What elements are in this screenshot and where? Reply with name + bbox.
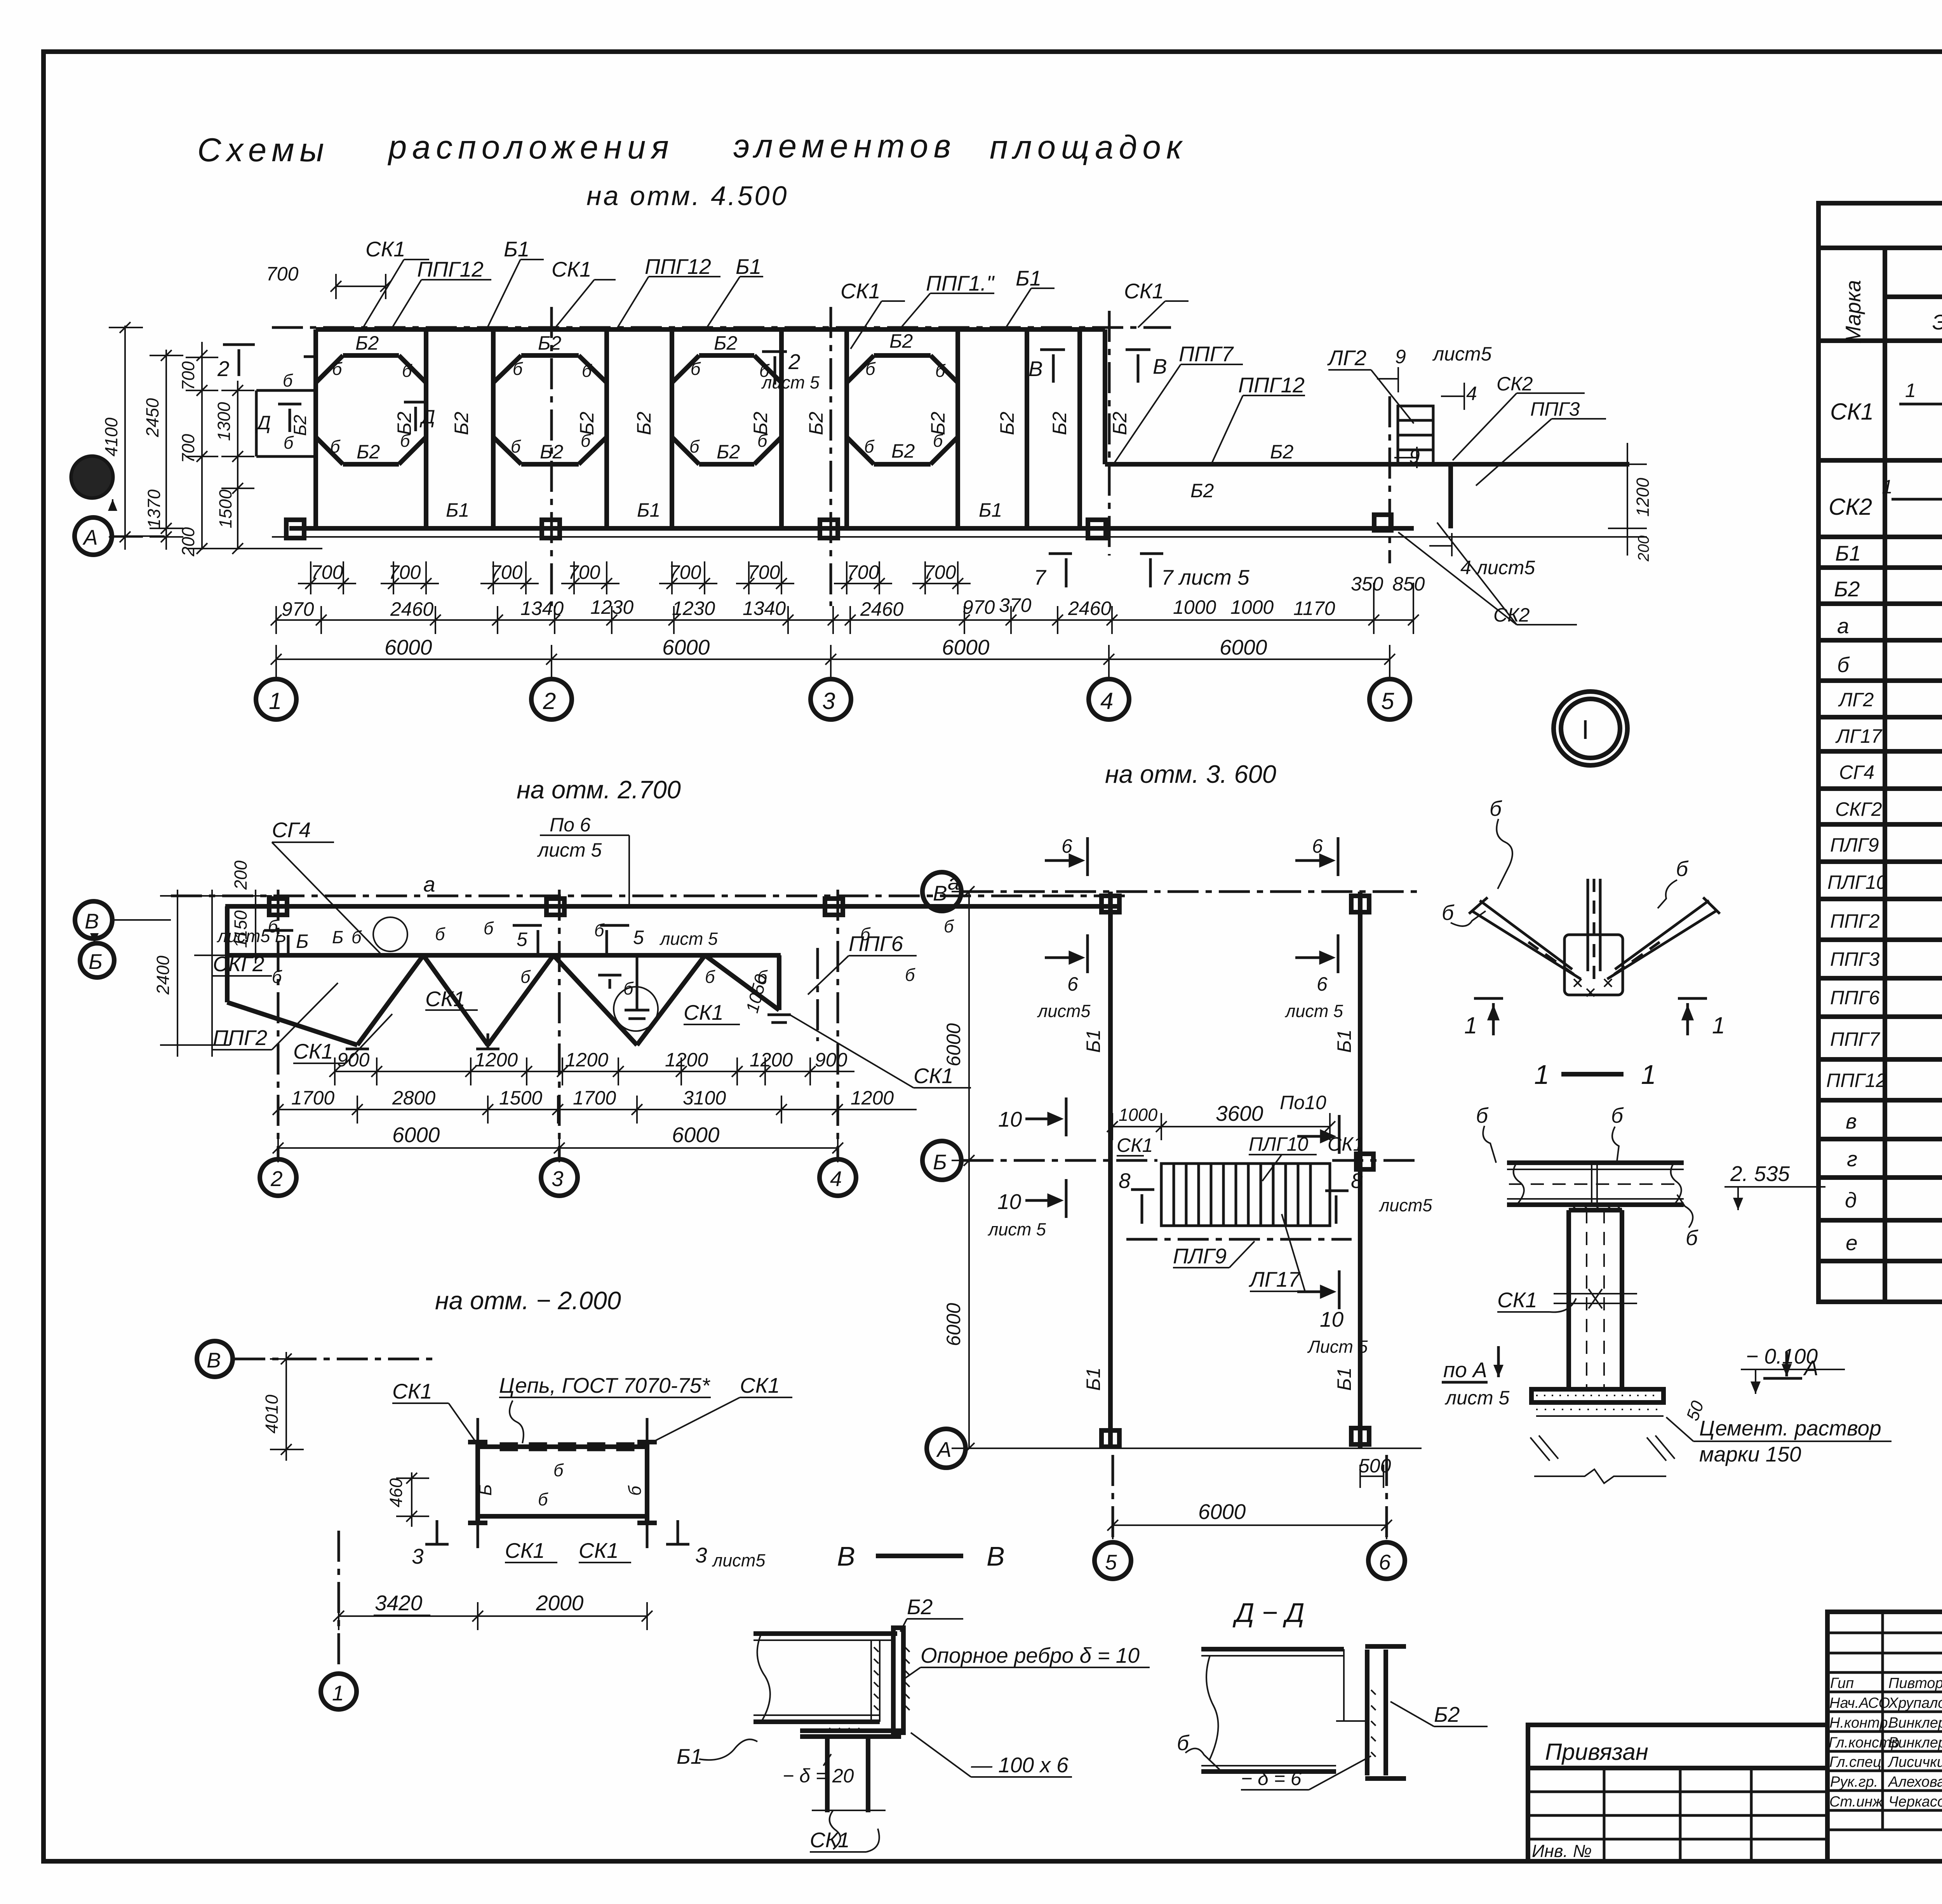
svg-text:Цемент. раствор: Цемент. раствор xyxy=(1699,1416,1881,1440)
svg-text:Ι: Ι xyxy=(1582,714,1589,745)
svg-text:СК1: СК1 xyxy=(425,987,465,1011)
svg-text:на отм. 2.700: на отм. 2.700 xyxy=(517,775,681,804)
svg-text:1500: 1500 xyxy=(216,490,235,528)
svg-text:2: 2 xyxy=(788,350,800,374)
svg-text:5: 5 xyxy=(1105,1550,1117,1574)
octagon panel 1 xyxy=(316,329,426,528)
svg-text:1170: 1170 xyxy=(1293,598,1335,619)
svg-text:1: 1 xyxy=(269,688,282,714)
svg-text:В: В xyxy=(987,1541,1005,1571)
svg-text:А: А xyxy=(936,1437,952,1462)
octagon panel 4 xyxy=(847,329,958,528)
svg-text:2: 2 xyxy=(217,357,230,381)
svg-text:СК2: СК2 xyxy=(1493,604,1530,626)
svg-text:Б2: Б2 xyxy=(891,440,915,462)
svg-text:4: 4 xyxy=(830,1167,842,1191)
svg-text:ППГ7: ППГ7 xyxy=(1179,342,1234,366)
svg-text:1200: 1200 xyxy=(750,1049,793,1071)
svg-text:Б2: Б2 xyxy=(1434,1702,1460,1726)
svg-text:ППГ3: ППГ3 xyxy=(1530,398,1580,420)
svg-text:1: 1 xyxy=(1534,1059,1549,1090)
svg-text:850: 850 xyxy=(1392,573,1425,595)
svg-text:6000: 6000 xyxy=(1198,1500,1246,1524)
octagon panel 2 xyxy=(493,329,607,528)
svg-text:1000: 1000 xyxy=(1230,596,1274,618)
svg-text:700: 700 xyxy=(178,361,198,390)
svg-text:б: б xyxy=(513,359,523,379)
svg-text:лист 5: лист 5 xyxy=(537,839,602,861)
svg-text:б: б xyxy=(594,920,605,940)
dims 1000 3600 xyxy=(1112,1126,1330,1127)
weld ticks xyxy=(829,1647,910,1731)
svg-text:Б2: Б2 xyxy=(1270,441,1294,463)
svg-text:ППГ7: ППГ7 xyxy=(1830,1028,1881,1050)
band top chord xyxy=(316,327,1105,332)
svg-text:ППГ12: ППГ12 xyxy=(1238,373,1305,397)
left side small box and dims xyxy=(256,357,316,456)
svg-text:б: б xyxy=(332,359,343,379)
svg-text:Д − Д: Д − Д xyxy=(1232,1597,1304,1628)
svg-text:д: д xyxy=(1845,1188,1857,1212)
svg-text:ППГ6: ППГ6 xyxy=(849,932,903,956)
svg-text:СК1: СК1 xyxy=(365,237,405,261)
svg-text:Ст.инж: Ст.инж xyxy=(1829,1794,1883,1810)
svg-text:СКГ2: СКГ2 xyxy=(1835,798,1882,820)
dims xyxy=(339,1615,647,1617)
svg-text:СК1: СК1 xyxy=(1328,1133,1364,1155)
svg-text:1200: 1200 xyxy=(1633,478,1653,517)
svg-text:лист5: лист5 xyxy=(712,1550,766,1570)
svg-text:б: б xyxy=(1476,1103,1489,1127)
axis circles xyxy=(922,872,961,911)
svg-text:ППГ2: ППГ2 xyxy=(213,1026,267,1050)
svg-text:СК1: СК1 xyxy=(392,1379,432,1403)
svg-text:1: 1 xyxy=(1712,1012,1725,1038)
svg-text:б: б xyxy=(553,1460,564,1480)
svg-text:1: 1 xyxy=(1905,380,1916,401)
svg-text:6: 6 xyxy=(1379,1550,1391,1574)
svg-text:6000: 6000 xyxy=(1220,635,1267,659)
svg-text:1700: 1700 xyxy=(291,1087,334,1109)
svg-text:СК1: СК1 xyxy=(1830,399,1874,425)
svg-text:200: 200 xyxy=(231,861,251,890)
svg-text:1000: 1000 xyxy=(1173,596,1216,618)
svg-text:6000: 6000 xyxy=(943,1023,964,1066)
column xyxy=(1531,1210,1664,1402)
svg-text:4: 4 xyxy=(1466,383,1477,404)
left dimension chains xyxy=(109,326,322,550)
svg-text:Б2: Б2 xyxy=(717,441,740,463)
svg-text:б: б xyxy=(1837,653,1850,677)
svg-text:В: В xyxy=(207,1348,221,1372)
svg-text:а: а xyxy=(1837,614,1849,638)
svg-text:расположения: расположения xyxy=(387,129,674,166)
svg-text:По10: По10 xyxy=(1280,1092,1326,1113)
svg-text:площадок: площадок xyxy=(990,129,1187,166)
svg-text:Б: Б xyxy=(475,1484,495,1496)
svg-text:б: б xyxy=(864,437,875,456)
weld x marks xyxy=(1574,979,1612,996)
svg-text:ППГ3: ППГ3 xyxy=(1830,948,1880,970)
svg-text:700: 700 xyxy=(847,561,879,583)
svg-text:СК1: СК1 xyxy=(1497,1288,1537,1312)
svg-text:1: 1 xyxy=(1641,1059,1656,1090)
svg-text:лист 5: лист 5 xyxy=(987,1219,1046,1239)
svg-text:Б1: Б1 xyxy=(1016,266,1041,290)
svg-text:Алехова: Алехова xyxy=(1888,1774,1942,1790)
svg-text:б: б xyxy=(625,1485,645,1496)
svg-text:СГ4: СГ4 xyxy=(272,818,311,842)
svg-text:лист5: лист5 xyxy=(1037,1001,1091,1021)
svg-text:б: б xyxy=(905,965,915,985)
svg-text:Б2: Б2 xyxy=(1190,480,1214,502)
svg-text:1000: 1000 xyxy=(1119,1105,1157,1125)
row lines xyxy=(1818,458,1942,463)
svg-text:б: б xyxy=(581,431,591,451)
svg-text:6000: 6000 xyxy=(943,1303,964,1346)
svg-text:700: 700 xyxy=(388,561,421,583)
svg-text:2000: 2000 xyxy=(536,1591,584,1615)
svg-text:2450: 2450 xyxy=(143,398,162,437)
svg-text:б: б xyxy=(1442,901,1455,925)
svg-text:ПЛГ10: ПЛГ10 xyxy=(1827,871,1887,893)
3 marks xyxy=(425,1520,689,1544)
dimension row 700s xyxy=(298,561,971,594)
table header grid xyxy=(1818,246,1942,250)
svg-text:СК1: СК1 xyxy=(293,1039,333,1063)
svg-text:10: 10 xyxy=(998,1107,1022,1131)
svg-text:б: б xyxy=(933,431,943,451)
svg-text:ПЛГ10: ПЛГ10 xyxy=(1249,1133,1309,1155)
svg-text:1150: 1150 xyxy=(231,910,251,948)
svg-text:350: 350 xyxy=(1351,573,1383,595)
svg-text:8: 8 xyxy=(1119,1169,1131,1193)
б labels on diagonals xyxy=(330,359,946,456)
svg-text:1: 1 xyxy=(1464,1012,1477,1038)
svg-text:700: 700 xyxy=(178,434,198,463)
svg-text:Б1: Б1 xyxy=(1835,541,1861,565)
svg-text:СК1: СК1 xyxy=(1124,279,1164,303)
svg-text:1: 1 xyxy=(332,1681,344,1705)
svg-text:б: б xyxy=(691,359,701,379)
underline for 3420 xyxy=(374,1615,430,1616)
svg-text:− δ = 20: − δ = 20 xyxy=(783,1765,854,1787)
svg-text:− δ = 6: − δ = 6 xyxy=(1241,1768,1302,1789)
svg-text:лист 5: лист 5 xyxy=(1284,1001,1343,1021)
svg-text:Хрупало: Хрупало xyxy=(1888,1695,1942,1711)
dimension row detailed xyxy=(276,619,1414,621)
svg-text:лист5: лист5 xyxy=(1378,1195,1432,1215)
right verticals of band xyxy=(1025,329,1029,528)
svg-text:2800: 2800 xyxy=(392,1087,435,1109)
svg-text:Б1: Б1 xyxy=(979,499,1002,521)
svg-text:1200: 1200 xyxy=(665,1049,708,1071)
svg-text:ППГ2: ППГ2 xyxy=(1830,910,1880,932)
привязан sub-table xyxy=(1528,1725,1827,1861)
svg-text:б: б xyxy=(511,437,521,456)
svg-text:лист 5: лист 5 xyxy=(659,929,718,949)
svg-text:3: 3 xyxy=(822,688,835,714)
svg-text:г: г xyxy=(1847,1147,1857,1171)
ladder xyxy=(1161,1164,1330,1226)
svg-text:Винклер: Винклер xyxy=(1888,1735,1942,1751)
CK2 sketch xyxy=(1892,473,1942,528)
truss diagonals xyxy=(227,906,779,1045)
chain links xyxy=(501,1444,633,1450)
svg-text:970: 970 xyxy=(282,598,314,620)
svg-text:Б2: Б2 xyxy=(357,441,380,463)
band bottom chords xyxy=(289,526,1414,531)
svg-text:б: б xyxy=(484,918,494,938)
svg-text:ЛГ17: ЛГ17 xyxy=(1835,725,1883,747)
svg-text:А: А xyxy=(82,525,98,549)
svg-text:а: а xyxy=(423,872,435,896)
right edge vertical dim 1200/200 xyxy=(1608,443,1647,556)
svg-text:лист5: лист5 xyxy=(1432,343,1492,365)
svg-text:Винклер: Винклер xyxy=(1888,1715,1942,1731)
svg-text:СК1: СК1 xyxy=(579,1538,619,1563)
svg-text:3100: 3100 xyxy=(683,1087,726,1109)
svg-text:б: б xyxy=(623,979,634,998)
svg-text:ППГ12: ППГ12 xyxy=(645,254,711,279)
dim row A xyxy=(334,1071,854,1072)
svg-text:Б2: Б2 xyxy=(1834,577,1860,601)
б labels xyxy=(268,916,954,998)
svg-text:б: б xyxy=(1676,857,1689,881)
svg-text:Опорное ребро δ = 10: Опорное ребро δ = 10 xyxy=(921,1643,1140,1667)
svg-text:700: 700 xyxy=(490,561,523,583)
svg-text:Б1: Б1 xyxy=(637,499,660,521)
svg-text:по А: по А xyxy=(1443,1358,1487,1382)
svg-text:б: б xyxy=(944,916,954,936)
beam xyxy=(1507,1163,1684,1205)
svg-text:Привязан: Привязан xyxy=(1545,1739,1648,1765)
svg-text:лист 5: лист 5 xyxy=(761,373,820,392)
svg-text:Б2: Б2 xyxy=(714,332,738,354)
svg-text:ЛГ17: ЛГ17 xyxy=(1249,1267,1301,1291)
svg-text:1200: 1200 xyxy=(851,1087,894,1109)
svg-text:е: е xyxy=(1846,1231,1858,1255)
section marks 6 xyxy=(1045,837,1338,973)
apex marks xyxy=(346,954,791,1049)
beam labels Б2 Б1 xyxy=(355,330,1294,521)
svg-text:Б2: Б2 xyxy=(889,330,913,352)
svg-text:СК1: СК1 xyxy=(552,257,592,281)
left dims xyxy=(160,890,272,1057)
plan rect xyxy=(478,1444,647,1449)
7 marks below band right xyxy=(1049,554,1163,587)
grid circles 1..5 xyxy=(256,659,1410,719)
svg-text:Рук.гр.: Рук.гр. xyxy=(1830,1774,1878,1790)
svg-text:10: 10 xyxy=(1320,1307,1344,1331)
svg-text:в: в xyxy=(1846,1109,1857,1133)
svg-text:Схемы: Схемы xyxy=(197,132,329,169)
svg-text:б: б xyxy=(582,361,592,381)
svg-text:СК1: СК1 xyxy=(740,1373,780,1397)
svg-text:Б2: Б2 xyxy=(538,332,562,354)
svg-text:2. 535: 2. 535 xyxy=(1730,1162,1790,1186)
svg-text:4010: 4010 xyxy=(262,1395,282,1434)
svg-text:В: В xyxy=(1028,357,1043,381)
svg-text:на отм. 4.500: на отм. 4.500 xyxy=(586,181,788,211)
2 / лист5 mark panel3 xyxy=(762,352,787,385)
svg-text:Инв. №: Инв. № xyxy=(1532,1841,1592,1861)
svg-text:Гип: Гип xyxy=(1830,1675,1854,1691)
svg-text:ЛГ2: ЛГ2 xyxy=(1327,346,1366,370)
svg-text:9: 9 xyxy=(1409,446,1420,467)
I in double circle xyxy=(1554,692,1627,765)
svg-text:6000: 6000 xyxy=(942,635,990,659)
1 section marks xyxy=(1474,998,1707,1035)
svg-text:5: 5 xyxy=(1381,688,1394,714)
svg-text:200: 200 xyxy=(1635,535,1652,562)
dim row B xyxy=(278,1109,917,1110)
octagon panel 3 xyxy=(672,329,781,528)
svg-text:СК1: СК1 xyxy=(840,279,881,303)
svg-text:2460: 2460 xyxy=(1068,598,1111,619)
svg-text:— 100 х 6: — 100 х 6 xyxy=(971,1753,1068,1777)
svg-text:3600: 3600 xyxy=(1216,1101,1263,1125)
svg-text:Эскиз: Эскиз xyxy=(1932,310,1942,334)
svg-text:1700: 1700 xyxy=(573,1087,616,1109)
svg-text:марки 150: марки 150 xyxy=(1699,1442,1801,1466)
CK1 sketch xyxy=(1899,363,1942,442)
svg-text:Б: Б xyxy=(332,927,343,947)
svg-text:элементов: элементов xyxy=(733,128,956,165)
svg-text:СК1: СК1 xyxy=(1117,1134,1153,1156)
svg-text:Б2: Б2 xyxy=(290,415,310,436)
signature grid xyxy=(1827,1612,1942,1830)
svg-text:1: 1 xyxy=(1882,476,1893,498)
svg-text:Б2: Б2 xyxy=(355,332,379,354)
svg-text:ПЛГ9: ПЛГ9 xyxy=(1830,834,1879,856)
svg-text:ППГ1.": ППГ1." xyxy=(926,271,995,295)
dimension row 6000 xyxy=(276,658,1390,660)
svg-text:СК1: СК1 xyxy=(810,1828,850,1852)
svg-text:Б2: Б2 xyxy=(805,411,827,435)
svg-text:СК2: СК2 xyxy=(1497,373,1533,395)
svg-text:Б1: Б1 xyxy=(446,499,469,521)
svg-text:3: 3 xyxy=(412,1544,424,1568)
svg-text:ППГ12: ППГ12 xyxy=(1826,1070,1886,1091)
svg-text:2460: 2460 xyxy=(390,598,433,620)
svg-text:Нач.АСО: Нач.АСО xyxy=(1829,1695,1890,1711)
axis dashdot verticals at columns xyxy=(550,307,553,606)
svg-text:3: 3 xyxy=(552,1167,564,1191)
svg-text:Д: Д xyxy=(419,406,435,428)
svg-text:1300: 1300 xyxy=(214,402,234,441)
svg-text:Лист 5: Лист 5 xyxy=(1307,1337,1368,1357)
svg-text:Д: Д xyxy=(255,412,271,434)
svg-text:Гл.спец.: Гл.спец. xyxy=(1829,1754,1885,1770)
svg-text:1500: 1500 xyxy=(499,1087,542,1109)
svg-text:б: б xyxy=(520,967,531,987)
svg-text:8: 8 xyxy=(1351,1169,1363,1193)
svg-text:10: 10 xyxy=(997,1190,1021,1214)
svg-text:Б2: Б2 xyxy=(1049,411,1070,435)
svg-text:СК1: СК1 xyxy=(914,1064,954,1088)
svg-text:Б2: Б2 xyxy=(451,411,472,435)
svg-text:− 0.100: − 0.100 xyxy=(1746,1344,1818,1368)
svg-text:б: б xyxy=(689,437,700,456)
svg-text:3: 3 xyxy=(695,1543,707,1567)
svg-text:б: б xyxy=(330,437,341,456)
svg-text:Б2: Б2 xyxy=(1109,411,1131,435)
svg-text:Б1: Б1 xyxy=(736,254,761,279)
svg-text:Б1: Б1 xyxy=(504,237,529,261)
svg-text:1340: 1340 xyxy=(743,598,786,619)
title block xyxy=(1528,1612,1942,1861)
по А marks bottom xyxy=(1763,1377,1802,1380)
svg-text:лист5 Б: лист5 Б xyxy=(216,926,286,946)
svg-text:СГ4: СГ4 xyxy=(1839,761,1874,783)
svg-text:5: 5 xyxy=(633,927,644,948)
circles 2 3 4 xyxy=(260,1159,296,1196)
ЛГ2 ladder xyxy=(1398,406,1433,464)
svg-text:700: 700 xyxy=(266,263,299,285)
dim row C xyxy=(278,1147,838,1149)
svg-text:б: б xyxy=(865,359,876,379)
main block xyxy=(1827,1612,1942,1861)
svg-text:на отм. 3. 600: на отм. 3. 600 xyxy=(1105,760,1276,788)
svg-text:700: 700 xyxy=(311,561,343,583)
svg-text:Б1: Б1 xyxy=(1333,1030,1355,1053)
В section marks right of band xyxy=(1040,350,1150,383)
svg-text:В: В xyxy=(85,909,99,933)
svg-text:Н.контр.: Н.контр. xyxy=(1829,1715,1892,1731)
svg-text:Лисичкин: Лисичкин xyxy=(1887,1754,1942,1770)
svg-text:700: 700 xyxy=(568,561,600,583)
svg-text:ППГ12: ППГ12 xyxy=(417,257,484,281)
svg-text:СК1: СК1 xyxy=(505,1538,545,1563)
svg-text:6000: 6000 xyxy=(662,635,710,659)
svg-text:700: 700 xyxy=(669,561,701,583)
svg-text:б: б xyxy=(402,361,412,381)
svg-text:6: 6 xyxy=(1061,835,1072,857)
svg-text:б: б xyxy=(757,431,768,451)
svg-text:5: 5 xyxy=(517,928,527,950)
svg-text:1230: 1230 xyxy=(590,596,633,618)
svg-text:Б2: Б2 xyxy=(907,1595,933,1619)
svg-text:Б2: Б2 xyxy=(996,411,1018,435)
bottom dim xyxy=(1113,1524,1387,1526)
svg-text:По 6: По 6 xyxy=(550,814,591,836)
svg-text:900: 900 xyxy=(337,1049,370,1071)
svg-text:на отм. − 2.000: на отм. − 2.000 xyxy=(435,1286,621,1315)
svg-text:1200: 1200 xyxy=(475,1049,518,1071)
vertical dim xyxy=(285,1352,287,1461)
svg-text:Марка: Марка xyxy=(1841,280,1865,344)
svg-text:370: 370 xyxy=(999,594,1032,616)
section marks 5 xyxy=(264,925,629,954)
column squares xyxy=(286,515,1391,538)
svg-text:7: 7 xyxy=(1034,565,1047,589)
column squares xyxy=(269,899,843,915)
2 mark left xyxy=(223,345,255,376)
axes xyxy=(962,890,1422,893)
svg-text:4: 4 xyxy=(1100,688,1113,714)
svg-text:1200: 1200 xyxy=(565,1049,608,1071)
left axis circles xyxy=(71,456,113,498)
left vertical dim xyxy=(968,892,970,1448)
svg-text:Б1: Б1 xyxy=(1082,1030,1104,1053)
svg-text:Б: Б xyxy=(89,949,103,974)
section marks 10 / по10 / 8 xyxy=(1025,1097,1349,1309)
svg-text:9: 9 xyxy=(1395,346,1406,368)
svg-text:2400: 2400 xyxy=(153,956,173,995)
svg-text:6: 6 xyxy=(1317,973,1328,995)
svg-text:б: б xyxy=(538,1489,548,1509)
